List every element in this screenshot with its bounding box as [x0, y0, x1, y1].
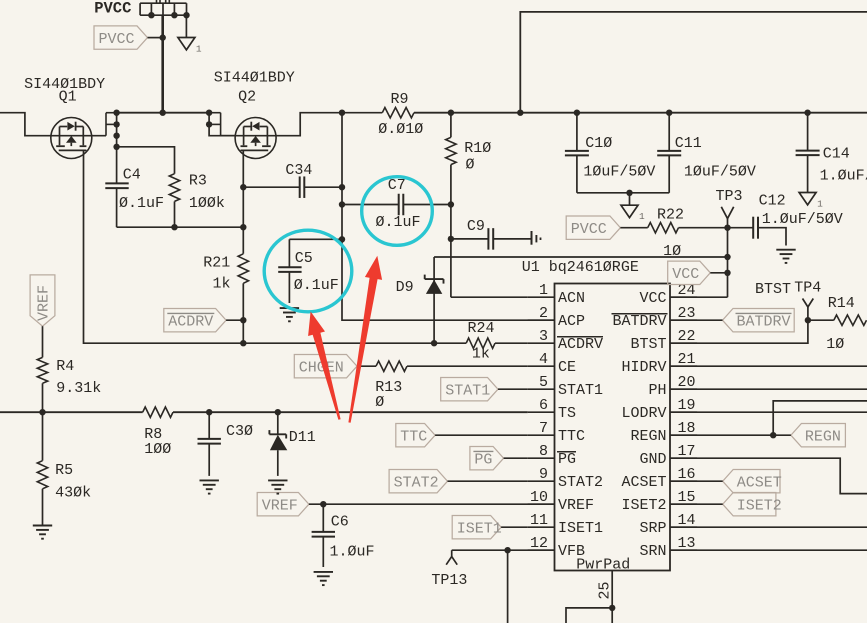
svg-text:9.31k: 9.31k: [56, 380, 101, 397]
label C5: [295, 250, 313, 267]
wire C34 right: [304, 184, 345, 190]
wire C9 right: [493, 238, 531, 240]
wire Q2 gate bracket: [206, 110, 236, 136]
wire C5 node to ACP pin 2: [342, 113, 555, 321]
testpoint TP4: [803, 299, 814, 308]
svg-text:1ØuF/5ØV: 1ØuF/5ØV: [583, 163, 655, 180]
wire pin25 pad: [609, 571, 615, 623]
svg-text:BTST: BTST: [630, 336, 666, 353]
svg-text:STAT2: STAT2: [558, 474, 603, 491]
svg-text:ACDRV: ACDRV: [168, 314, 213, 331]
capacitor C10: [565, 113, 589, 193]
label 10 (R22): [663, 243, 681, 260]
label C6: [331, 514, 349, 531]
label R14: [828, 295, 855, 312]
label 100 (R8): [144, 441, 171, 458]
svg-text:TTC: TTC: [400, 429, 427, 446]
ground (C12): [776, 250, 795, 263]
wire Q1 pin bus vertical: [113, 110, 119, 184]
label TP13: [431, 572, 467, 589]
resistor R22: [648, 223, 679, 233]
svg-text:C1Ø: C1Ø: [585, 135, 612, 152]
annotation arrow to C7: [348, 256, 382, 423]
label R22: [657, 206, 684, 223]
svg-text:ACSET: ACSET: [621, 474, 666, 491]
svg-text:VCC: VCC: [672, 266, 699, 283]
svg-text:BTST: BTST: [755, 281, 791, 298]
label 0.1uF (C4): [119, 195, 164, 212]
svg-text:BATDRV: BATDRV: [612, 313, 666, 330]
testpoint TP13: [446, 550, 457, 565]
wire pin17 GND to edge: [670, 458, 867, 493]
wire VCC riser: [724, 228, 730, 298]
flag PVCC (net label, top left): [94, 26, 148, 49]
wire top bypass to right edge: [520, 12, 867, 113]
wire pin23 to BATDRV: [670, 319, 723, 321]
svg-text:R3: R3: [189, 172, 207, 189]
label C34: [285, 162, 312, 179]
wire PG to pin8: [504, 457, 528, 459]
wire pin24 VCC: [670, 296, 728, 298]
wire pin13 SRN to edge: [670, 549, 867, 551]
svg-text:1: 1: [817, 198, 823, 209]
resistor R10: [446, 113, 456, 298]
svg-text:PwrPad: PwrPad: [576, 557, 630, 574]
label R21: [203, 255, 230, 272]
capacitor C34: [300, 176, 305, 198]
svg-text:1: 1: [196, 43, 202, 54]
wire pin19 LODRV to edge: [670, 411, 867, 413]
wire pin16 to ACSET: [670, 480, 723, 482]
wire PVCC flag tip to junction: [148, 37, 163, 39]
svg-text:TS: TS: [558, 405, 576, 422]
wire Q1 gate bracket: [106, 113, 117, 136]
svg-text:C6: C6: [331, 514, 349, 531]
pin names U1 right (pins 24-13): [612, 282, 696, 560]
svg-text:PVCC: PVCC: [99, 31, 135, 48]
wire main bus Q1 to Q2: [117, 110, 210, 116]
svg-text:R1Ø: R1Ø: [464, 140, 491, 157]
label SI4401BDY for Q2: [214, 70, 295, 87]
wire pin14 SRP to edge: [670, 526, 867, 528]
svg-text:ISET1: ISET1: [558, 520, 603, 537]
label D9: [396, 279, 414, 296]
svg-text:SI44Ø1BDY: SI44Ø1BDY: [214, 70, 295, 87]
wire C7 right: [403, 204, 451, 206]
label R10: [464, 140, 491, 157]
wire pin22 BTST: [670, 307, 811, 343]
wire REGN branch to edge: [770, 401, 867, 439]
ground (C6): [314, 572, 333, 585]
wire STAT1 to pin5: [498, 388, 528, 390]
svg-text:1.ØuF: 1.ØuF: [330, 544, 375, 561]
svg-text:TP3: TP3: [716, 188, 743, 205]
resistor R4: [37, 357, 47, 412]
wire C5 top: [289, 236, 345, 242]
label BTST: [755, 281, 791, 298]
svg-text:R22: R22: [657, 206, 684, 223]
wire CHGEN to R13: [357, 365, 376, 367]
flag STAT2 (net label): [389, 470, 447, 493]
label R4: [56, 358, 74, 375]
power symbol PVCC (clipped connector block at top): [140, 0, 190, 18]
label D11: [289, 429, 316, 446]
svg-text:Ø.1uF: Ø.1uF: [376, 214, 421, 231]
flag VREF (net label, bottom): [257, 493, 309, 516]
svg-text:Ø.Ø1Ø: Ø.Ø1Ø: [378, 121, 423, 138]
svg-text:C3Ø: C3Ø: [226, 423, 253, 440]
label 10uF/50V (C10): [583, 163, 655, 180]
label R24: [468, 320, 495, 337]
label R8: [144, 426, 162, 443]
label R5: [55, 462, 73, 479]
svg-text:REGN: REGN: [630, 428, 666, 445]
diode D9 (zener): [425, 257, 444, 343]
capacitor C12: [753, 217, 758, 239]
resistor R5: [37, 412, 47, 525]
wire U1 right pin stubs: [670, 297, 697, 550]
svg-text:Ø.1uF: Ø.1uF: [294, 277, 339, 294]
wire C34 left: [243, 186, 299, 188]
svg-text:Ø: Ø: [375, 394, 384, 411]
svg-text:SRN: SRN: [639, 543, 666, 560]
label R13: [375, 379, 402, 396]
svg-text:STAT1: STAT1: [445, 383, 490, 400]
svg-text:VREF: VREF: [262, 498, 298, 515]
label Q2: [238, 88, 256, 105]
label 0.010 (R9): [378, 121, 423, 138]
resistor R24: [466, 338, 495, 348]
flag VREF (net label, rotated left): [30, 275, 55, 326]
svg-text:PVCC: PVCC: [94, 0, 131, 18]
wire R24 to pin3: [495, 342, 528, 344]
svg-text:R14: R14: [828, 295, 855, 312]
flag CHGEN (net label): [294, 355, 357, 378]
ground (D11): [268, 480, 287, 493]
wire C4/R3 bottom to Q2 drain: [117, 224, 247, 230]
svg-text:Q2: Q2: [238, 88, 256, 105]
svg-text:C7: C7: [388, 177, 406, 194]
label 25 (rotated): [597, 581, 614, 599]
svg-text:1ØØk: 1ØØk: [189, 195, 225, 212]
op-amp U1 body (bq24610RGE charger IC box): [555, 284, 671, 571]
label C9: [467, 218, 485, 235]
label C7: [388, 177, 406, 194]
svg-text:1ØuF/5ØV: 1ØuF/5ØV: [684, 163, 756, 180]
svg-text:C34: C34: [285, 162, 312, 179]
label 1.0uF (C6): [330, 544, 375, 561]
label C12: [759, 192, 786, 209]
wire BTST to R14: [808, 319, 834, 321]
wire node row y257: [434, 256, 727, 258]
svg-text:43Øk: 43Øk: [55, 484, 91, 501]
svg-text:TP4: TP4: [794, 280, 821, 297]
flag ACDRV (net label): [164, 309, 226, 332]
svg-text:LODRV: LODRV: [621, 405, 666, 422]
svg-text:CE: CE: [558, 359, 576, 376]
flag REGN (net label): [791, 424, 846, 447]
svg-text:Ø.1uF: Ø.1uF: [119, 195, 164, 212]
highlight circle around C5: [264, 230, 352, 312]
wire VFB drop to bottom edge: [507, 550, 509, 623]
wire VCC flag tip: [710, 272, 727, 274]
svg-text:R9: R9: [391, 91, 409, 108]
label PVCC (power net name): [94, 0, 131, 18]
capacitor C11: [657, 113, 681, 193]
svg-text:D11: D11: [289, 429, 316, 446]
ground (C30): [200, 480, 219, 493]
flag TTC (net label): [396, 424, 435, 447]
label 0.1uF (C7): [376, 214, 421, 231]
label 1k (R21): [213, 276, 231, 293]
transistor Q2 (SI4401BDY P-FET mirrored): [221, 118, 276, 159]
label C30: [226, 423, 253, 440]
wire ACN pin1 to top node: [451, 296, 528, 298]
label 0.1uF (C5): [294, 277, 339, 294]
svg-text:VREF: VREF: [36, 285, 53, 321]
label PwrPad: [576, 557, 630, 574]
svg-text:C12: C12: [759, 192, 786, 209]
wire R9 to right bus: [339, 110, 867, 116]
ground (R5): [33, 526, 52, 539]
capacitor C7: [399, 194, 404, 216]
svg-text:1ØØ: 1ØØ: [144, 441, 171, 458]
label C10: [585, 135, 612, 152]
svg-text:25: 25: [597, 581, 614, 599]
svg-text:1k: 1k: [213, 276, 231, 293]
wire ACDRV net (Q1 drain to pin3): [84, 150, 467, 346]
label R9: [391, 91, 409, 108]
wire R22 to C12: [679, 225, 754, 231]
svg-text:R21: R21: [203, 255, 230, 272]
wire Q2 drain to R9 bus: [276, 113, 382, 136]
label C4: [123, 167, 141, 184]
svg-text:1.ØuF/5ØV: 1.ØuF/5ØV: [762, 211, 843, 228]
label 0 (R13): [375, 394, 384, 411]
svg-text:STAT1: STAT1: [558, 382, 603, 399]
svg-text:1: 1: [639, 211, 645, 222]
wire TS net (left edge to pin6): [0, 409, 528, 415]
wire Q2 drain down: [240, 150, 246, 253]
wire AC input to Q1 source: [0, 113, 51, 136]
wire ACDRV tip: [226, 317, 246, 323]
label TP4: [794, 280, 821, 297]
svg-text:ACN: ACN: [558, 290, 585, 307]
flag STAT1 (net label): [441, 378, 498, 401]
svg-text:1Ø: 1Ø: [826, 336, 844, 353]
svg-text:TTC: TTC: [558, 428, 585, 445]
wire pin15 to ISET2: [670, 503, 723, 505]
label R3: [189, 172, 207, 189]
wire pin20 PH to edge: [670, 388, 867, 390]
svg-text:C5: C5: [295, 250, 313, 267]
flag VCC (net label): [668, 261, 711, 284]
svg-text:D9: D9: [396, 279, 414, 296]
transistor Q1 (SI4401BDY P-FET in circle with body diode): [51, 118, 106, 159]
svg-text:ACDRV: ACDRV: [558, 336, 603, 353]
resistor R14: [834, 315, 867, 325]
capacitor C5: [278, 239, 301, 303]
svg-text:U1 bq2461ØRGE: U1 bq2461ØRGE: [522, 259, 639, 276]
label 10uF/50V (C11): [684, 163, 756, 180]
wire VREF to pin10: [309, 501, 555, 507]
resistor R8: [143, 407, 173, 417]
resistor R3: [169, 174, 179, 228]
label 0 (R10): [466, 157, 475, 174]
capacitor C14: [796, 113, 820, 193]
svg-text:TP13: TP13: [431, 572, 467, 589]
resistor R21: [238, 254, 248, 343]
svg-text:PG: PG: [558, 451, 576, 468]
label TP3: [716, 188, 743, 205]
svg-text:REGN: REGN: [805, 429, 841, 446]
label U1 bq24610RGE: [522, 259, 639, 276]
capacitor C30: [198, 412, 221, 476]
wire C12 right to ground: [758, 228, 786, 246]
label Q1: [59, 88, 77, 105]
flag BATDRV (net label): [723, 309, 795, 332]
ground (triangle, C14): [799, 193, 823, 210]
resistor R13: [376, 361, 407, 371]
capacitor C6: [312, 504, 335, 567]
svg-text:R24: R24: [468, 320, 495, 337]
svg-text:SRP: SRP: [639, 520, 666, 537]
svg-text:ISET2: ISET2: [621, 497, 666, 514]
label 430k (R5): [55, 484, 91, 501]
svg-text:C11: C11: [675, 135, 702, 152]
svg-text:Q1: Q1: [59, 88, 77, 105]
svg-text:PG: PG: [474, 452, 492, 469]
testpoint TP3: [721, 207, 733, 228]
label 1k (R24): [472, 345, 490, 362]
diode D11 (zener to ground): [269, 412, 287, 476]
wire PVCC to R22: [620, 227, 647, 229]
wire pin18 REGN: [670, 434, 791, 436]
wire C10/C11 bottom join: [577, 190, 669, 196]
svg-text:GND: GND: [639, 451, 666, 468]
pin names U1 left (pins 1-12): [530, 282, 603, 560]
label C14: [823, 146, 850, 163]
flag PG (net label): [470, 447, 504, 470]
flag ISET2 (net label): [723, 493, 782, 516]
capacitor (clipped, right of C9): [532, 231, 541, 245]
svg-text:C4: C4: [123, 167, 141, 184]
svg-text:STAT2: STAT2: [394, 475, 439, 492]
wire U1 left pin stubs: [528, 297, 555, 550]
capacitor C9: [488, 228, 493, 250]
svg-text:1.ØuF/5ØV: 1.ØuF/5ØV: [820, 167, 867, 184]
wire C9 left: [451, 238, 489, 240]
wire pin12 VFB: [452, 547, 555, 553]
svg-text:ISET2: ISET2: [737, 498, 782, 515]
flag ISET1 (net label): [452, 516, 502, 539]
flag ACSET (net label): [723, 470, 782, 493]
svg-text:1k: 1k: [472, 345, 490, 362]
svg-text:PH: PH: [648, 382, 666, 399]
svg-text:C9: C9: [467, 218, 485, 235]
label 100k (R3): [189, 195, 225, 212]
wire TTC to pin7: [435, 434, 528, 436]
wire PVCC drop (thick vertical from connector to main bus): [161, 15, 164, 113]
label 10 (R14): [826, 336, 844, 353]
svg-text:ACP: ACP: [558, 313, 585, 330]
svg-text:C14: C14: [823, 146, 850, 163]
wire C7 left: [339, 201, 399, 207]
annotation arrow to C5: [308, 312, 341, 420]
capacitor C4: [105, 183, 128, 227]
ground (triangle, C10/C11): [621, 193, 645, 222]
svg-text:VREF: VREF: [558, 497, 594, 514]
ground (C5): [280, 308, 299, 321]
node PVCC junction dot: [160, 34, 166, 40]
wire pin21 HIDRV to edge: [670, 365, 867, 367]
label C11: [675, 135, 702, 152]
svg-text:HIDRV: HIDRV: [621, 359, 666, 376]
svg-text:BATDRV: BATDRV: [737, 314, 791, 331]
resistor R9: [382, 108, 414, 118]
wire STAT2 to pin9: [448, 480, 528, 482]
label 1.0uF/50V (C14, clipped): [820, 167, 867, 184]
svg-text:ISET1: ISET1: [457, 521, 502, 538]
svg-text:ACSET: ACSET: [737, 475, 782, 492]
wire VREF flag to R4: [42, 326, 44, 357]
highlight circle around C7: [362, 177, 433, 246]
ground (triangle style, top left): [178, 15, 202, 54]
label SI4401BDY for Q1: [24, 76, 105, 93]
svg-text:PVCC: PVCC: [571, 221, 607, 238]
svg-text:R5: R5: [55, 462, 73, 479]
svg-text:R4: R4: [56, 358, 74, 375]
svg-text:VCC: VCC: [639, 290, 666, 307]
wire pad to left-down: [566, 608, 612, 623]
label 1.0uF/50V (C12): [762, 211, 843, 228]
svg-text:Ø: Ø: [466, 157, 475, 174]
wire ISET1 to pin11: [501, 526, 528, 528]
wire R3 top tap: [117, 147, 175, 174]
label 9.31k (R4): [56, 380, 101, 397]
wire R13 to pin4: [407, 365, 528, 367]
flag PVCC (net label, middle): [566, 216, 620, 239]
